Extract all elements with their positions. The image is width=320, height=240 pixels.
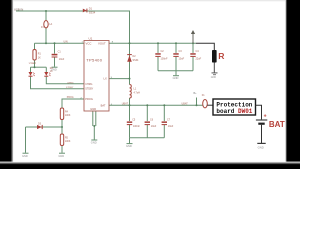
- svg-text:SS34: SS34: [133, 59, 140, 62]
- svg-text:R: R: [218, 51, 225, 61]
- svg-text:VCC: VCC: [86, 42, 92, 46]
- svg-text:GND: GND: [22, 154, 28, 158]
- svg-text:GND: GND: [91, 140, 97, 144]
- svg-text:GND: GND: [126, 144, 132, 148]
- svg-text:+: +: [264, 114, 267, 120]
- svg-text:GND: GND: [90, 107, 96, 111]
- svg-text:100nF: 100nF: [133, 125, 140, 128]
- svg-text:10uF: 10uF: [59, 58, 65, 61]
- svg-text:CHRG: CHRG: [85, 83, 92, 86]
- svg-text:BAT: BAT: [269, 120, 285, 129]
- svg-text:PROG: PROG: [67, 97, 74, 99]
- svg-text:100K: 100K: [65, 141, 71, 143]
- svg-text:PROG: PROG: [85, 97, 93, 101]
- svg-text:LX: LX: [104, 77, 107, 81]
- svg-text:STDBY: STDBY: [85, 88, 93, 91]
- svg-text:board DW01: board DW01: [216, 108, 252, 115]
- svg-text:UBAT: UBAT: [122, 102, 129, 105]
- svg-text:GND: GND: [211, 77, 216, 79]
- svg-text:U1: U1: [89, 37, 93, 41]
- svg-text:SS34: SS34: [89, 10, 96, 14]
- svg-text:10uF: 10uF: [168, 125, 174, 128]
- svg-text:10uF: 10uF: [151, 125, 157, 128]
- svg-text:1K: 1K: [38, 57, 41, 60]
- svg-text:GND: GND: [58, 154, 64, 158]
- svg-text:4.7uH: 4.7uH: [134, 91, 141, 94]
- svg-text:VOUT: VOUT: [98, 42, 106, 46]
- svg-text:STDBY: STDBY: [66, 87, 74, 89]
- svg-text:D1: D1: [89, 7, 93, 11]
- svg-text:BAT: BAT: [101, 103, 106, 107]
- svg-text:1A: 1A: [49, 23, 52, 26]
- svg-text:GND: GND: [173, 76, 179, 80]
- svg-text:22uF: 22uF: [196, 57, 202, 60]
- svg-text:TP5400: TP5400: [86, 58, 103, 63]
- svg-text:U LED: U LED: [29, 62, 36, 65]
- svg-text:10uF: 10uF: [179, 57, 185, 60]
- svg-text:UIN: UIN: [64, 40, 68, 43]
- svg-text:100nF: 100nF: [161, 57, 169, 60]
- svg-text:UBAT: UBAT: [182, 102, 189, 105]
- svg-text:USB IN: USB IN: [14, 7, 23, 11]
- svg-text:GND: GND: [258, 145, 264, 149]
- svg-text:CHRG: CHRG: [67, 82, 74, 84]
- svg-text:1K: 1K: [50, 71, 53, 73]
- svg-text:100K: 100K: [65, 115, 71, 117]
